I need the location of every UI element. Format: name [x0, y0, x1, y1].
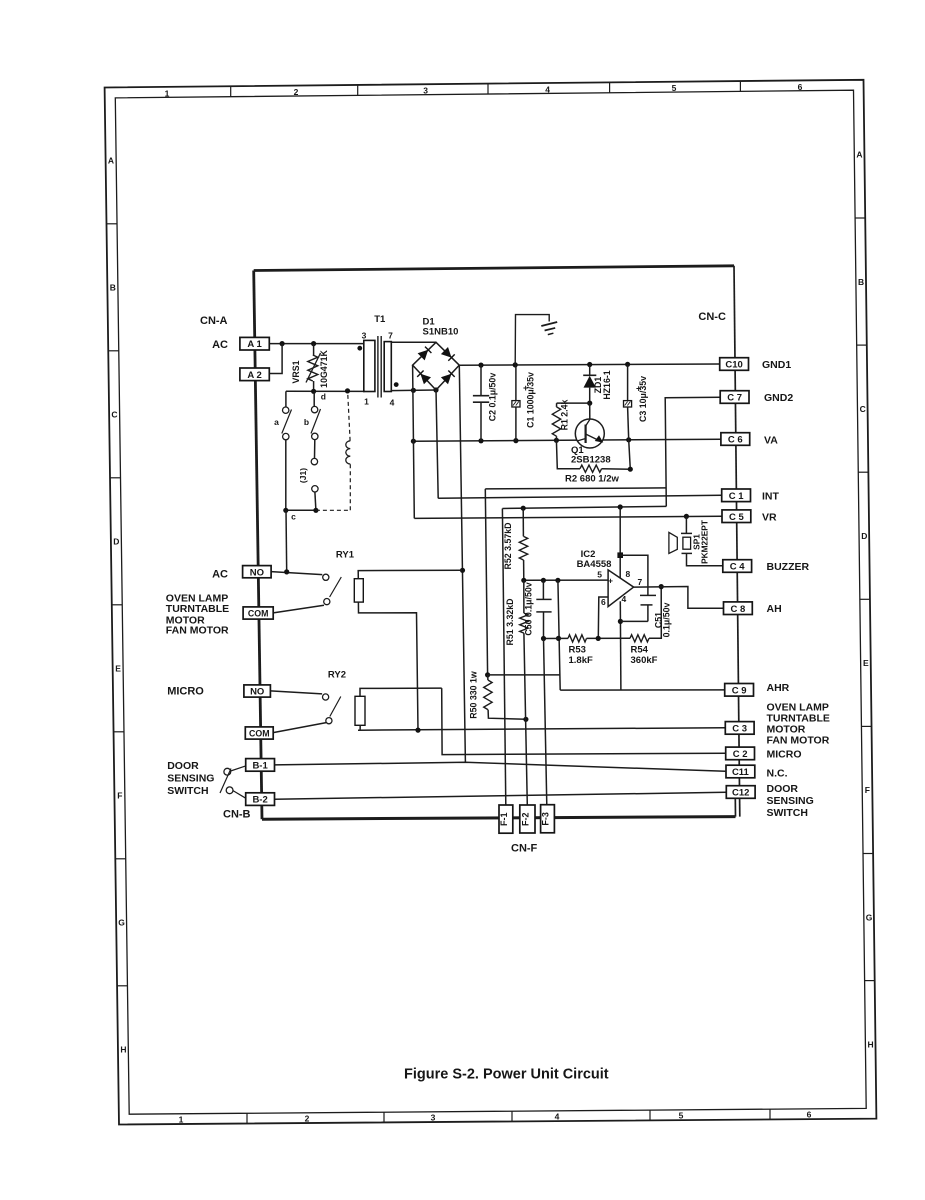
node C50 top: [541, 578, 546, 583]
wire B-2 line: [275, 792, 727, 799]
node RY1 feed junction: [460, 568, 465, 573]
bridge rectifier D1: [413, 342, 460, 390]
wire R2 right leg: [602, 440, 631, 469]
svg-text:NO: NO: [250, 567, 264, 578]
node A1 junction: [280, 341, 285, 346]
svg-text:2SB1238: 2SB1238: [571, 455, 611, 466]
svg-text:NO: NO: [250, 687, 264, 698]
zener ZD1: [589, 365, 591, 376]
resistor R51: [523, 580, 525, 613]
svg-text:C 2: C 2: [733, 749, 748, 760]
connector C4: [723, 560, 752, 573]
svg-text:HZ16-1: HZ16-1: [602, 370, 612, 399]
svg-text:6: 6: [798, 82, 803, 92]
resistor R53: [568, 635, 587, 642]
node d junction: [311, 389, 316, 394]
svg-text:C 4: C 4: [730, 562, 746, 573]
relay RY1 actuator: [354, 579, 363, 602]
wire F-2 column: [524, 633, 527, 805]
svg-text:DOOR: DOOR: [767, 783, 799, 795]
wire A2 jog: [269, 344, 282, 374]
node c-RY1 junction: [284, 569, 289, 574]
svg-text:Figure S-2. Power Unit Circuit: Figure S-2. Power Unit Circuit: [404, 1067, 609, 1083]
connector C1: [722, 489, 751, 502]
connector B-1: [246, 759, 275, 772]
top border zone ticks: [230, 86, 232, 97]
svg-text:R53: R53: [569, 645, 586, 656]
svg-text:PKM22EPT: PKM22EPT: [700, 520, 710, 564]
svg-text:RY2: RY2: [328, 670, 346, 681]
svg-text:C1 1000μ/35v: C1 1000μ/35v: [526, 372, 536, 428]
transistor Q1: [575, 419, 604, 448]
svg-text:SENSING: SENSING: [167, 773, 214, 785]
svg-text:R54: R54: [631, 645, 649, 656]
svg-text:6: 6: [807, 1110, 812, 1120]
svg-text:R51 3.32kD: R51 3.32kD: [505, 599, 515, 646]
connector C9: [725, 684, 754, 697]
svg-text:B-1: B-1: [252, 761, 268, 772]
svg-text:C: C: [860, 404, 866, 414]
svg-text:MICRO: MICRO: [167, 686, 204, 698]
svg-text:C50 0.1μ/50v: C50 0.1μ/50v: [524, 582, 534, 635]
circuit box bottom edge: [262, 817, 736, 820]
connector F-1: [499, 805, 513, 833]
svg-text:a: a: [274, 417, 279, 427]
svg-text:BUZZER: BUZZER: [767, 561, 810, 573]
buzzer SP1: [685, 516, 687, 533]
wire opamp supply rail: [502, 506, 666, 508]
wire bridge-to-RY column: [459, 365, 465, 762]
ground symbol: [515, 315, 549, 365]
node pin8 branch: [617, 552, 623, 558]
transformer T1 left winding: [364, 340, 375, 391]
connector C12: [726, 786, 755, 799]
node pin4 junction: [411, 388, 416, 393]
node C2 bottom: [478, 438, 483, 443]
connector C5: [722, 510, 751, 523]
svg-text:3: 3: [423, 86, 428, 96]
door sensing switch: [224, 768, 231, 775]
svg-text:7: 7: [638, 577, 643, 587]
resistor R1: [552, 407, 560, 436]
node mid column R53: [556, 636, 561, 641]
svg-text:F-1: F-1: [499, 812, 509, 826]
wire AHR lower: [560, 689, 724, 691]
svg-text:c: c: [291, 512, 296, 522]
svg-text:INT: INT: [762, 490, 780, 502]
transformer T1 core: [377, 336, 379, 398]
capacitor C1: [515, 365, 517, 401]
switch b: [313, 391, 315, 406]
wire pin7 to bridge: [391, 341, 436, 343]
svg-text:360kF: 360kF: [631, 655, 658, 666]
svg-text:COM: COM: [249, 729, 270, 739]
svg-text:A: A: [108, 156, 114, 166]
svg-text:AH: AH: [767, 603, 782, 615]
connector C11: [726, 765, 755, 778]
wire C7 GND2 line: [665, 397, 721, 506]
wire Q1 base: [589, 403, 591, 419]
circuit box top edge: [254, 266, 734, 271]
svg-text:RY1: RY1: [336, 550, 355, 561]
wire RY2 top rail: [360, 688, 442, 696]
svg-text:d: d: [321, 392, 326, 402]
node C3 top: [625, 362, 630, 367]
svg-text:H: H: [868, 1039, 874, 1049]
svg-text:S1NB10: S1NB10: [423, 327, 459, 338]
svg-text:N.C.: N.C.: [767, 768, 788, 780]
op-amp IC2: [608, 570, 634, 607]
svg-text:10G471K: 10G471K: [319, 350, 329, 388]
wire COM1: [273, 605, 324, 613]
wire pin4 to C51: [620, 620, 648, 622]
wire R53-R54 link: [587, 637, 631, 639]
svg-text:5: 5: [597, 570, 602, 580]
node R50 top: [485, 672, 490, 677]
wire R50 column: [485, 489, 487, 675]
svg-text:C10: C10: [725, 360, 742, 371]
varistor VRS1: [308, 355, 318, 381]
node C50 bottom: [541, 636, 546, 641]
svg-text:3: 3: [362, 331, 367, 341]
svg-text:C2 0.1μ/50v: C2 0.1μ/50v: [488, 373, 498, 422]
wire opamp plus input: [524, 579, 608, 581]
svg-text:4: 4: [545, 84, 550, 94]
connector NO1: [243, 566, 272, 578]
phase dot right winding: [394, 382, 399, 387]
svg-text:6: 6: [601, 597, 606, 607]
svg-text:SWITCH: SWITCH: [167, 785, 208, 797]
node C3 bottom: [626, 437, 631, 442]
svg-text:CN-C: CN-C: [698, 311, 726, 323]
svg-text:A 1: A 1: [247, 339, 262, 350]
wire C3 line: [358, 728, 725, 731]
capacitor C2: [480, 365, 482, 396]
wire COM2: [272, 723, 326, 733]
svg-text:1: 1: [179, 1114, 184, 1124]
connector F-2: [520, 805, 535, 833]
wire RY1 top: [358, 570, 462, 578]
wire INT column: [436, 390, 438, 498]
svg-text:C: C: [111, 410, 117, 420]
capacitor C50: [542, 580, 544, 599]
node R1 bottom: [554, 438, 559, 443]
wire output line: [634, 587, 724, 609]
svg-text:SENSING: SENSING: [767, 795, 814, 807]
svg-text:AC: AC: [212, 339, 228, 351]
svg-text:A: A: [856, 150, 862, 160]
wire B-1 line: [275, 762, 726, 771]
svg-text:B: B: [858, 277, 864, 287]
svg-text:F: F: [865, 785, 870, 795]
wire c to RY1: [285, 510, 288, 572]
node ZD1 top: [587, 362, 592, 367]
node ground stub top: [513, 362, 518, 367]
svg-text:+: +: [608, 576, 613, 586]
svg-text:T1: T1: [374, 314, 386, 325]
relay coil dashed link: [316, 509, 350, 511]
resistor R54: [630, 635, 649, 642]
connector C8: [724, 602, 753, 615]
switch a: [285, 391, 287, 407]
connector A1: [240, 337, 269, 350]
wire NO1: [271, 572, 322, 575]
node c wire: [286, 509, 316, 511]
wire MICRO line: [442, 688, 726, 755]
node R51 top: [521, 578, 526, 583]
connector NO2: [244, 685, 271, 697]
svg-text:R52 3.57kD: R52 3.57kD: [503, 523, 513, 570]
wire R2 left leg: [556, 440, 580, 468]
svg-text:F: F: [117, 791, 122, 801]
svg-text:C11: C11: [732, 767, 750, 778]
svg-text:2: 2: [305, 1113, 310, 1123]
svg-text:CN-A: CN-A: [200, 315, 228, 327]
connector C6: [721, 433, 750, 446]
svg-text:C 6: C 6: [728, 435, 743, 446]
svg-text:C 3: C 3: [732, 724, 747, 735]
svg-text:SWITCH: SWITCH: [767, 807, 808, 819]
node buzzer tap: [684, 514, 689, 519]
svg-text:4: 4: [622, 594, 627, 604]
capacitor C3: [627, 364, 629, 400]
svg-text:TURNTABLE: TURNTABLE: [166, 603, 229, 615]
svg-text:FAN MOTOR: FAN MOTOR: [767, 735, 830, 747]
svg-text:8: 8: [626, 569, 631, 579]
svg-text:b: b: [304, 417, 309, 427]
capacitor C51: [640, 594, 656, 596]
svg-text:1.8kF: 1.8kF: [569, 655, 593, 666]
svg-text:(J1): (J1): [298, 468, 308, 483]
svg-text:5: 5: [679, 1111, 684, 1121]
node coil top junction: [345, 388, 350, 393]
border frame inner: [115, 90, 866, 1114]
svg-text:2: 2: [294, 87, 299, 97]
wire pin8 to C51: [620, 555, 648, 595]
svg-text:1: 1: [364, 397, 369, 407]
node VRS1 top junction: [311, 341, 316, 346]
svg-text:FAN MOTOR: FAN MOTOR: [166, 624, 229, 636]
svg-text:DOOR: DOOR: [167, 760, 199, 772]
wire pin4 to bridge: [391, 389, 436, 392]
wire RY2 bottom stub: [359, 725, 361, 730]
node mid column top: [555, 578, 560, 583]
transformer T1 right winding: [384, 342, 391, 392]
wire INT line: [438, 495, 721, 498]
svg-text:C 8: C 8: [731, 604, 746, 615]
top rail GND1: [459, 364, 719, 365]
wire pin4 column: [619, 601, 622, 690]
svg-text:CN-B: CN-B: [223, 809, 251, 821]
bottom border zone ticks: [246, 1113, 248, 1123]
svg-text:C 7: C 7: [727, 393, 742, 404]
svg-text:R1 2.4k: R1 2.4k: [560, 399, 570, 430]
connector COM1: [243, 607, 273, 619]
relay RY2 contact: [323, 694, 329, 700]
relay RY2 actuator: [355, 696, 365, 725]
svg-text:B-2: B-2: [252, 795, 267, 806]
connector C2: [726, 747, 755, 760]
node pin8 rail: [618, 504, 623, 509]
svg-text:F-3: F-3: [541, 812, 551, 826]
svg-text:C 5: C 5: [729, 512, 745, 523]
relay coil: [346, 441, 351, 464]
wire R1 top link: [557, 402, 590, 404]
svg-text:BA4558: BA4558: [577, 559, 612, 570]
svg-text:VRS1: VRS1: [291, 360, 301, 383]
wire R50 bottom link: [488, 710, 526, 720]
svg-text:GND1: GND1: [762, 359, 791, 371]
resistor R52: [522, 508, 524, 536]
node R52 top: [521, 506, 526, 511]
wire RY1 bottom: [358, 602, 418, 730]
wire NO2: [270, 691, 322, 694]
svg-text:C12: C12: [732, 788, 749, 799]
relay RY1 contact: [323, 574, 329, 580]
svg-text:E: E: [863, 658, 869, 668]
svg-text:1: 1: [165, 88, 170, 98]
svg-text:GND2: GND2: [764, 392, 793, 404]
right border zone ticks: [855, 217, 865, 219]
connector C3: [725, 722, 754, 735]
wire mid horizontal 488: [485, 488, 665, 489]
svg-text:D: D: [113, 537, 119, 547]
svg-text:5: 5: [672, 83, 677, 93]
svg-text:B: B: [110, 283, 116, 293]
svg-text:F-2: F-2: [521, 812, 531, 826]
svg-text:E: E: [115, 664, 121, 674]
spine to bottom edge stub: [734, 798, 736, 817]
VA rail: [413, 439, 720, 441]
wire pin6 feedback: [598, 597, 608, 638]
wire F-1 column: [502, 509, 505, 806]
svg-text:R50 330 1w: R50 330 1w: [469, 671, 479, 719]
svg-text:COM: COM: [248, 609, 269, 619]
wire VR line: [414, 516, 722, 518]
svg-text:3: 3: [431, 1113, 436, 1123]
node output junction: [659, 584, 664, 589]
svg-text:AC: AC: [212, 569, 228, 581]
svg-text:G: G: [866, 912, 873, 922]
circuit box left edge: [254, 271, 262, 820]
wire R53 line left: [544, 637, 569, 639]
svg-text:4: 4: [390, 398, 395, 408]
svg-text:AHR: AHR: [767, 682, 790, 694]
wire left vertex column: [413, 365, 415, 518]
svg-text:0.1μ/50v: 0.1μ/50v: [662, 603, 672, 638]
phase dot left winding: [357, 346, 362, 351]
svg-text:VR: VR: [762, 512, 777, 524]
svg-text:C3 10μ/35v: C3 10μ/35v: [638, 376, 648, 422]
node F2 column junction: [523, 717, 528, 722]
border frame outer: [105, 80, 877, 1125]
svg-text:A 2: A 2: [247, 370, 261, 381]
node bridge bottom junction: [433, 387, 438, 392]
svg-text:H: H: [120, 1045, 126, 1055]
connector B-2: [246, 793, 275, 806]
svg-text:CN-F: CN-F: [511, 843, 538, 855]
node R2 right: [628, 467, 633, 472]
connector COM2: [245, 727, 273, 739]
node ZD1 bottom: [587, 401, 592, 406]
connector F-3: [541, 805, 555, 833]
wire pin8 supply: [619, 507, 621, 578]
node feedback junction: [596, 636, 601, 641]
svg-text:C 1: C 1: [729, 491, 745, 502]
wire F-3 column: [544, 639, 547, 806]
wire AHR upper: [488, 674, 560, 676]
wire primary bottom: [286, 390, 365, 392]
svg-text:MICRO: MICRO: [767, 748, 802, 760]
CN-C connector spine: [734, 266, 740, 817]
node C2 top: [478, 363, 483, 368]
resistor R50: [484, 680, 492, 710]
connector A2: [240, 368, 269, 381]
svg-text:4: 4: [555, 1112, 560, 1122]
svg-text:R2 680 1/2w: R2 680 1/2w: [565, 474, 619, 485]
svg-text:G: G: [118, 918, 125, 928]
node VA left corner: [411, 439, 416, 444]
connector C10: [720, 358, 749, 371]
wire A1 to transformer: [269, 343, 364, 345]
svg-text:C 9: C 9: [732, 685, 747, 696]
node RY1-C3 junction: [415, 728, 420, 733]
svg-text:D: D: [861, 531, 867, 541]
svg-text:VA: VA: [764, 435, 778, 447]
wire R54 right leg: [649, 587, 661, 639]
wire mid column: [558, 580, 560, 690]
node C1 bottom: [513, 438, 518, 443]
node pin4 branch: [618, 619, 623, 624]
connector C7: [720, 391, 749, 404]
svg-text:7: 7: [388, 331, 393, 341]
resistor R2: [580, 465, 602, 472]
left border zone ticks: [107, 223, 118, 225]
